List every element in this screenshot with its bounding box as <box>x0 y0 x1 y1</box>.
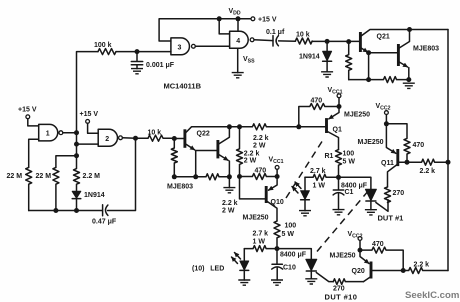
resistor 2.7 k 1 W (ch10) <box>244 246 277 252</box>
svg-text:Q22: Q22 <box>197 130 210 137</box>
transistor Q10 (MJE250 pnp) <box>265 186 268 203</box>
resistor 270 (ch1) <box>385 187 391 203</box>
wire: Q22 emitter2 (arrow) <box>218 154 228 160</box>
wire: Q11 base <box>398 161 407 163</box>
svg-text:4: 4 <box>236 38 240 45</box>
svg-text:DUT #1: DUT #1 <box>378 214 404 223</box>
svg-text:100: 100 <box>343 151 355 158</box>
svg-text:MJE250: MJE250 <box>330 253 356 260</box>
svg-text:VCC1: VCC1 <box>328 87 343 96</box>
svg-text:1 W: 1 W <box>253 238 266 245</box>
wire: base into Q22 <box>174 138 185 140</box>
terminal VCC1 (ch10) <box>275 166 279 170</box>
ground (1N914 top) <box>321 72 333 77</box>
transistor Q11 (MJE250 pnp) <box>396 149 399 166</box>
ground (DUT#1) <box>365 210 377 215</box>
DUT #10 (diode) <box>306 259 317 270</box>
wire: emitter1 to bar2 and down <box>196 151 218 177</box>
node: Q22 base <box>172 136 177 141</box>
wire: gate3 output to gate4 lower input <box>195 45 229 47</box>
terminal VCC1 (ch1) <box>337 94 341 98</box>
node: ch10 output node <box>275 246 280 251</box>
resistor 470 (Q20 bias) <box>360 247 403 270</box>
resistor R1 100 5W <box>336 150 342 178</box>
svg-text:(10) LED: (10) LED <box>192 266 224 273</box>
svg-text:2 W: 2 W <box>244 158 257 165</box>
diode 1N914 (top) <box>323 51 332 61</box>
svg-text:MC14011B: MC14011B <box>164 82 202 91</box>
svg-text:2.2 k: 2.2 k <box>414 262 430 269</box>
terminal +15 V (gate2) <box>86 120 90 124</box>
wire: gate2 lower input <box>77 143 99 145</box>
svg-text:2: 2 <box>105 136 109 143</box>
node on top wire (gate4 input tap) <box>217 16 222 21</box>
svg-text:0.47 μF: 0.47 μF <box>92 218 117 225</box>
svg-text:270: 270 <box>333 286 345 293</box>
capacitor 8400 uF C10 <box>272 249 283 280</box>
node: top rail junction <box>407 27 412 32</box>
wire: Q20 emitter (arrow into bar) <box>360 250 369 263</box>
svg-text:Q1: Q1 <box>333 127 342 134</box>
wire: gate1 output to main vertical <box>63 132 77 134</box>
svg-text:2 W: 2 W <box>253 142 266 149</box>
svg-text:R1: R1 <box>325 153 334 160</box>
svg-text:2 W: 2 W <box>222 208 235 215</box>
terminal VCC2 (Q20) <box>358 237 362 241</box>
wire: DUT#1 to 270 <box>376 200 388 212</box>
svg-text:2.2 k: 2.2 k <box>253 135 269 142</box>
svg-text:MJE250: MJE250 <box>243 214 269 221</box>
wire: top wire to gate4 upper input <box>219 19 229 34</box>
svg-text:10 k: 10 k <box>296 31 310 38</box>
resistor 100 5W (ch10) <box>274 221 280 249</box>
svg-text:2.2 k: 2.2 k <box>222 200 238 207</box>
svg-text:2.7 k: 2.7 k <box>253 230 269 237</box>
svg-text:1N914: 1N914 <box>299 53 320 60</box>
DUT #1 (diode) <box>365 189 376 200</box>
wire: +15V to gate1 top input <box>28 119 39 126</box>
transistor Q20 (MJE250 pnp) <box>370 262 373 279</box>
svg-text:SeekIC.com: SeekIC.com <box>405 290 459 301</box>
wire: right vertical rail <box>447 30 449 271</box>
wire: Q21 collector 1 to top rail <box>360 30 448 37</box>
transistor Q22 second bar <box>216 140 219 158</box>
ground (Q22) <box>223 188 235 193</box>
ground (C10) <box>271 280 283 285</box>
transistor Q1 (MJE250 pnp) <box>325 118 328 133</box>
op-amp U1 gate 3 (NAND) <box>171 38 190 55</box>
svg-text:470: 470 <box>311 98 323 105</box>
svg-text:+15 V: +15 V <box>80 111 99 118</box>
svg-text:MJE803: MJE803 <box>413 46 439 53</box>
ground (Q21 emitter) <box>403 83 415 88</box>
svg-text:470: 470 <box>255 168 267 175</box>
LED (ch1) <box>304 177 306 190</box>
wire: Q11 emitter (arrow into bar) <box>386 124 395 154</box>
wire: VDD pin drop <box>237 19 239 32</box>
op-amp U2 gate 1 (NAND) <box>39 124 58 140</box>
svg-text:Q11: Q11 <box>381 160 394 167</box>
svg-text:2.2 k: 2.2 k <box>244 150 260 157</box>
op-amp U1 gate 4 (NAND) <box>230 31 249 48</box>
node: 100k / gate3 input / 0.001uF junction <box>135 49 140 54</box>
node: ch10 bias node <box>237 174 242 179</box>
wire: Q10 base path <box>240 177 267 199</box>
svg-text:0.1 μf: 0.1 μf <box>266 29 285 36</box>
wire: VSS pin <box>237 48 239 72</box>
svg-text:8400 μF: 8400 μF <box>280 252 307 259</box>
wire: Q21 emitter 1 (arrow) <box>360 48 367 53</box>
svg-text:5 W: 5 W <box>343 158 356 165</box>
svg-text:22 M: 22 M <box>36 173 52 180</box>
wire: DUT#10 to 270 <box>316 273 333 282</box>
capacitor 0.001 uF <box>131 52 142 69</box>
wire: 10k to Q21 base <box>312 40 360 42</box>
svg-text:1 W: 1 W <box>313 182 326 189</box>
capacitor 8400 uF C1 <box>333 177 344 209</box>
ground (LED ch10) <box>238 280 250 285</box>
node: ch1 output node <box>336 175 341 180</box>
resistor 470 (ch10 bias) <box>240 174 278 180</box>
svg-text:VCC1: VCC1 <box>269 156 284 165</box>
ground (LED ch1) <box>299 211 311 216</box>
svg-text:1N914: 1N914 <box>84 192 105 199</box>
resistor 22 M #2 <box>53 167 59 210</box>
resistor 2.2 k (Q20 to rail) <box>403 268 448 274</box>
node on top wire (VDD tap) <box>236 16 241 21</box>
wire: Q20 base <box>371 270 403 272</box>
wire: gate2 output <box>122 137 148 139</box>
svg-text:VCC2: VCC2 <box>348 231 363 240</box>
wire + resistor (Q21 emitter bottom) <box>349 77 409 83</box>
svg-text:Q10: Q10 <box>271 199 284 206</box>
wire: Q21 collector 2 <box>398 30 409 49</box>
wire: gate1 lower input from 22M <box>29 139 39 167</box>
resistor 100 k (zigzag) <box>98 49 116 55</box>
svg-text:VSS: VSS <box>243 56 255 65</box>
svg-text:MJE803: MJE803 <box>167 184 193 191</box>
wire: Q22 collector2 <box>218 127 230 145</box>
ground (VSS) <box>232 73 244 78</box>
svg-text:Q21: Q21 <box>377 33 390 40</box>
wire: Q1 emitter from VCC1 (arrow into bar) <box>329 107 339 119</box>
wire: Q10 emitter from VCC1 (arrow into bar) <box>269 177 278 191</box>
resistor 2.2 k 2 W (series, main wire) <box>240 124 299 130</box>
svg-text:2.7 k: 2.7 k <box>310 168 326 175</box>
transistor Q21 (MJE803 darlington, first bar) <box>359 32 362 52</box>
svg-text:0.001 μF: 0.001 μF <box>146 62 175 69</box>
resistor 10 k (gate2 output) <box>148 135 174 141</box>
svg-text:2.2 M: 2.2 M <box>83 173 101 180</box>
svg-text:10 k: 10 k <box>148 129 162 136</box>
svg-text:MJE250: MJE250 <box>358 139 384 146</box>
wire: emitter1 down and to bar2 <box>369 53 399 80</box>
node: 2.2k vertical tap on main wire <box>237 124 242 129</box>
svg-text:22 M: 22 M <box>7 173 23 180</box>
svg-text:+15 V: +15 V <box>18 106 37 113</box>
svg-text:270: 270 <box>393 190 405 197</box>
resistor 2.2 M <box>74 156 80 192</box>
dashed line (Q1 ... Q10 channels) <box>286 138 325 199</box>
wire: Q1 base from main wire <box>299 126 327 128</box>
op-amp U2 gate 2 (NAND) <box>98 129 117 146</box>
wire+resistor 470 (Q11 bias) <box>386 124 410 162</box>
svg-text:100 k: 100 k <box>94 42 112 49</box>
resistor 2.7 k 1 W (ch1) <box>305 174 339 180</box>
resistor (Q22 base pulldown) <box>171 139 177 177</box>
resistor 22 M #1 <box>26 167 32 210</box>
wire: bottom feedback rail <box>29 138 136 210</box>
svg-text:1: 1 <box>46 131 50 138</box>
wire: Q22 collector1 to top wire <box>185 127 240 134</box>
svg-text:VCC2: VCC2 <box>376 103 391 112</box>
terminal +15 V (gate1) <box>26 115 30 119</box>
wire: +15V to gate2 top input <box>88 123 99 133</box>
svg-text:VDD: VDD <box>229 8 241 17</box>
svg-text:+15 V: +15 V <box>258 16 277 23</box>
node: Q21 emitter1/base2 <box>366 50 371 55</box>
svg-text:C10: C10 <box>283 265 296 272</box>
svg-text:100: 100 <box>285 222 297 229</box>
transistor Q22 (MJE803 darlington, first bar) <box>183 129 186 148</box>
svg-text:MJE250: MJE250 <box>344 112 370 119</box>
node: VCC1 ch10 <box>275 174 280 179</box>
svg-text:470: 470 <box>372 241 384 248</box>
wire: gate4 output <box>254 39 273 42</box>
svg-text:470: 470 <box>413 142 425 149</box>
wire: Q11 collector <box>388 164 398 187</box>
resistor 2.2 k 2 W (vertical, ch10) <box>237 127 243 177</box>
LED (ch10) <box>243 249 245 261</box>
dashed line (DUT#1 ... DUT#10) <box>317 190 369 252</box>
node: 1N914 tap <box>325 39 330 44</box>
capacitor 0.1 uf (coupling) <box>273 36 295 46</box>
svg-text:5 W: 5 W <box>282 231 295 238</box>
wire: to 22M #2 <box>56 156 77 168</box>
diode 1N914 (bottom) <box>72 191 81 198</box>
node: junction to 22M2 / 2.2M <box>74 153 79 158</box>
wire: Q20 collector <box>364 277 372 282</box>
resistor 270 (ch10) <box>333 279 363 285</box>
node: ch1 bias tap on main wire <box>296 124 301 129</box>
resistor (Q21 base-emitter) <box>346 42 352 80</box>
wire: Q1 collector <box>327 131 339 150</box>
wire: Q10 collector <box>266 201 277 221</box>
svg-text:2.2 k: 2.2 k <box>420 168 436 175</box>
wire: gate3 top feedback <box>159 19 251 41</box>
svg-text:Q20: Q20 <box>352 268 365 275</box>
LED arrows (ch1) <box>295 182 301 189</box>
svg-text:DUT #10: DUT #10 <box>325 293 358 302</box>
wire: Q22 emitter1 (arrow) <box>185 144 195 150</box>
wire: Q21 emitter 2 (arrow) <box>398 62 407 68</box>
wire: node to DUT#10 <box>277 249 311 260</box>
terminal +15 V (top) <box>251 17 255 21</box>
wire: oscillator feedback left vertical and 100k feed <box>77 52 171 156</box>
LED arrows (ch10) <box>235 253 241 260</box>
svg-text:3: 3 <box>178 44 182 51</box>
ground (DUT#10) <box>305 279 317 284</box>
transistor Q21 second bar <box>397 44 400 66</box>
wire+resistor 470 (ch1 bias) <box>299 104 339 127</box>
ground (0.001 uF) <box>131 69 143 74</box>
wire: emitter2 to ground <box>228 177 230 188</box>
ground (C1) <box>333 210 345 215</box>
resistor 10 k (top) <box>295 38 312 44</box>
svg-text:C1: C1 <box>345 189 354 196</box>
terminal VCC2 (Q11) <box>385 111 389 115</box>
resistor 2.2 k (Q11 to rail) <box>407 159 448 165</box>
capacitor 0.47 uF <box>103 205 108 216</box>
wire + resistor (Q22 emitter bottom) <box>174 174 229 180</box>
node: Q21 base resistor tap <box>346 39 351 44</box>
wire: node to DUT#1 <box>339 177 371 189</box>
node: VCC1 ch1 <box>337 104 342 109</box>
